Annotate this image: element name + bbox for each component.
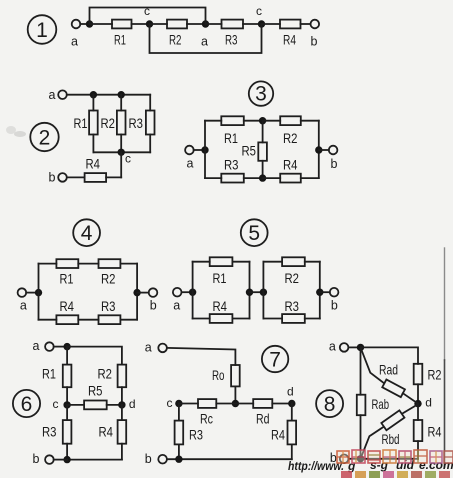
svg-text:b: b bbox=[33, 452, 40, 466]
wire bbox=[132, 23, 150, 25]
wire bbox=[80, 23, 86, 25]
svg-text:b: b bbox=[145, 452, 152, 466]
wire bbox=[167, 348, 236, 365]
wire bbox=[305, 318, 320, 320]
svg-text:a: a bbox=[201, 35, 208, 49]
wire bbox=[244, 120, 263, 122]
resistor R5 bbox=[67, 382, 122, 409]
node right (circuit 4) bbox=[133, 289, 140, 296]
svg-text:R2: R2 bbox=[285, 270, 300, 286]
svg-text:Rad: Rad bbox=[379, 362, 398, 378]
terminal b (circuit 3) bbox=[329, 146, 338, 171]
loop1 bottom rail wire bbox=[193, 318, 210, 320]
circuit 4 number badge bbox=[73, 219, 100, 246]
resistor R1 bbox=[42, 347, 71, 405]
terminal b (circuit 5) bbox=[330, 288, 339, 312]
svg-text:c: c bbox=[256, 4, 262, 18]
resistor R1 bbox=[210, 257, 233, 286]
svg-text:R2: R2 bbox=[169, 32, 182, 48]
resistor R1 bbox=[221, 116, 244, 146]
svg-text:R1: R1 bbox=[114, 32, 126, 48]
wire bottom rail bbox=[39, 319, 57, 321]
circuit 3 number badge bbox=[249, 81, 273, 105]
circuit 7 number badge bbox=[262, 346, 288, 372]
bottom rail wire (circuit 7) bbox=[167, 458, 292, 460]
node left loop1 bbox=[189, 289, 196, 296]
resistor Rad bbox=[361, 347, 419, 403]
wire bottom bridge bbox=[150, 24, 262, 53]
svg-text:R4: R4 bbox=[213, 298, 228, 314]
node after a bbox=[86, 20, 93, 27]
wire bbox=[263, 177, 281, 179]
node left (circuit 3) bbox=[201, 146, 208, 153]
node R2 top bbox=[118, 91, 125, 98]
svg-text:R2: R2 bbox=[428, 366, 442, 382]
node b (circuit 8) bbox=[357, 455, 364, 462]
node right loop2 bbox=[316, 289, 323, 296]
resistor Ro bbox=[212, 365, 240, 404]
wire bbox=[301, 177, 319, 179]
svg-text:R3: R3 bbox=[224, 157, 239, 173]
resistor R2 bbox=[167, 20, 187, 48]
node bottom middle bbox=[259, 174, 266, 181]
svg-text:R1: R1 bbox=[42, 366, 56, 382]
svg-text:7: 7 bbox=[269, 348, 281, 371]
wire bbox=[90, 23, 113, 25]
circuit 5 number badge bbox=[241, 219, 268, 246]
wire bbox=[263, 120, 281, 122]
svg-text:b: b bbox=[150, 298, 157, 312]
node c (left) bbox=[144, 4, 153, 28]
wire bottom rail bbox=[361, 458, 419, 460]
wire R1 bottom to node c bbox=[93, 151, 121, 153]
wire top rail bbox=[67, 347, 122, 365]
svg-text:a: a bbox=[173, 298, 180, 312]
bottom rail wire bbox=[67, 459, 122, 461]
svg-text:R3: R3 bbox=[129, 115, 144, 131]
wire left vertical bbox=[204, 121, 206, 178]
resistor R4 bbox=[85, 156, 107, 182]
svg-text:R1: R1 bbox=[74, 115, 88, 131]
resistor R4 bbox=[280, 157, 301, 183]
resistor Rbd bbox=[361, 404, 419, 459]
wire to R4 bbox=[106, 176, 121, 178]
svg-text:R5: R5 bbox=[88, 382, 103, 398]
wire bbox=[54, 346, 67, 348]
svg-text:R3: R3 bbox=[189, 427, 203, 443]
svg-text:a: a bbox=[33, 339, 40, 353]
svg-text:c: c bbox=[167, 396, 173, 410]
svg-text:Rc: Rc bbox=[200, 411, 213, 427]
wire bbox=[187, 23, 206, 25]
wire bbox=[78, 263, 98, 265]
loop1 top rail wire bbox=[193, 261, 210, 263]
terminal a (circuit 7) bbox=[145, 341, 167, 355]
wire bbox=[78, 319, 98, 321]
node b (circuit 7) bbox=[175, 456, 182, 463]
circuit 2 number badge bbox=[30, 123, 58, 151]
resistor R4 bbox=[56, 298, 78, 324]
svg-text:R4: R4 bbox=[271, 427, 285, 443]
wire bbox=[244, 177, 263, 179]
wire top rail bbox=[361, 347, 419, 363]
svg-text:1: 1 bbox=[36, 19, 48, 42]
scan edge line bbox=[444, 248, 446, 360]
node left (circuit 4) bbox=[35, 289, 42, 296]
resistor R1 bbox=[56, 259, 78, 286]
svg-text:a: a bbox=[71, 35, 78, 49]
node right loop1 bbox=[246, 289, 253, 296]
wire bbox=[120, 319, 137, 321]
resistor R3 bbox=[221, 157, 244, 183]
svg-text:R4: R4 bbox=[86, 156, 101, 172]
node a (circuit 6) bbox=[63, 343, 70, 350]
wire left vertical bbox=[38, 264, 40, 320]
svg-text:R3: R3 bbox=[285, 298, 300, 314]
wire bbox=[194, 149, 205, 151]
node d (circuit 7) bbox=[287, 385, 295, 408]
wire bbox=[54, 459, 67, 461]
svg-text:R3: R3 bbox=[42, 423, 57, 439]
svg-text:Rab: Rab bbox=[372, 396, 390, 412]
terminal b (circuit 6) bbox=[33, 452, 54, 466]
wire to terminal b bbox=[67, 176, 85, 178]
svg-text:R1: R1 bbox=[224, 130, 238, 146]
svg-text:a: a bbox=[49, 88, 56, 102]
resistor R3 bbox=[282, 298, 305, 323]
wire bbox=[348, 346, 360, 348]
resistor R2 bbox=[101, 95, 126, 153]
node c (circuit 2) bbox=[118, 149, 132, 166]
svg-text:Rbd: Rbd bbox=[382, 431, 400, 447]
svg-text:d: d bbox=[129, 397, 136, 411]
svg-text:b: b bbox=[311, 35, 318, 49]
terminal b (circuit 1) bbox=[311, 20, 320, 49]
circuit 1 number badge bbox=[28, 15, 57, 44]
terminal a (circuit 3) bbox=[185, 146, 194, 171]
svg-text:b: b bbox=[331, 157, 338, 171]
terminal a (circuit 1) bbox=[72, 20, 81, 29]
wire bbox=[26, 292, 38, 294]
svg-text:2: 2 bbox=[39, 127, 51, 150]
wire R3 bottom to node c bbox=[121, 151, 150, 153]
node middle (circuit 7) bbox=[232, 400, 239, 407]
resistor R4 bbox=[280, 20, 301, 48]
node top middle bbox=[259, 117, 266, 124]
wire bbox=[305, 261, 320, 263]
resistor R3 bbox=[222, 20, 244, 48]
terminal b (circuit 4) bbox=[149, 288, 158, 312]
svg-text:R2: R2 bbox=[101, 115, 116, 131]
wire bbox=[232, 261, 249, 263]
wire top rail left bbox=[205, 120, 221, 122]
resistor R1 bbox=[112, 20, 132, 48]
terminal b (circuit 7) bbox=[145, 452, 167, 466]
svg-text:R2: R2 bbox=[98, 366, 113, 382]
wire top bridge bbox=[90, 8, 206, 25]
resistor R4 bbox=[99, 405, 127, 460]
wire bbox=[150, 23, 168, 25]
loop2 left vertical wire bbox=[262, 262, 264, 319]
terminal a (circuit 5) bbox=[173, 288, 182, 312]
resistor R3 (circuit 7) bbox=[175, 404, 204, 460]
svg-text:R3: R3 bbox=[101, 298, 116, 314]
svg-text:R1: R1 bbox=[60, 271, 74, 287]
wire right vertical bbox=[318, 121, 320, 178]
svg-text:a: a bbox=[20, 298, 27, 312]
resistor R3 bbox=[42, 405, 71, 460]
node left loop2 bbox=[260, 289, 267, 296]
svg-text:R3: R3 bbox=[225, 32, 238, 48]
wire bbox=[137, 292, 149, 294]
node d (circuit 6) bbox=[118, 397, 135, 411]
loop2 bottom rail wire bbox=[263, 318, 282, 320]
loop2 right vertical wire bbox=[319, 262, 321, 319]
wire top rail bbox=[39, 263, 57, 265]
node c (right) bbox=[256, 4, 265, 28]
scan smudge left edge bbox=[6, 126, 26, 137]
svg-text:R4: R4 bbox=[428, 423, 442, 439]
terminal a (circuit 2) bbox=[49, 88, 67, 102]
resistor R5 bbox=[242, 121, 267, 178]
svg-text:R4: R4 bbox=[283, 32, 296, 48]
wire bbox=[182, 291, 193, 293]
resistor R2 bbox=[280, 116, 301, 146]
wire bbox=[120, 263, 137, 265]
wire bbox=[348, 458, 360, 460]
resistor R2 bbox=[282, 257, 305, 286]
node d (circuit 8) bbox=[414, 396, 432, 410]
resistor R4 (circuit 8) bbox=[414, 404, 442, 459]
node c (circuit 7) bbox=[167, 396, 183, 410]
svg-text:R5: R5 bbox=[242, 143, 257, 159]
svg-text:d: d bbox=[425, 396, 432, 410]
resistor Rab bbox=[357, 347, 389, 458]
node b (circuit 6) bbox=[63, 456, 70, 463]
wire bbox=[320, 291, 330, 293]
svg-text:R1: R1 bbox=[213, 270, 227, 286]
resistor R4 (circuit 7) bbox=[271, 404, 296, 460]
svg-text:R2: R2 bbox=[283, 130, 298, 146]
wire middle link bbox=[250, 291, 264, 293]
node right (circuit 3) bbox=[315, 146, 322, 153]
wire bbox=[232, 318, 249, 320]
svg-text:http://www.: http://www. bbox=[288, 459, 344, 473]
wire bbox=[301, 23, 311, 25]
svg-text:4: 4 bbox=[81, 222, 93, 245]
svg-text:c: c bbox=[53, 397, 59, 411]
svg-text:d: d bbox=[287, 385, 294, 399]
wire node c down bbox=[120, 152, 122, 177]
node a (circuit 8) bbox=[357, 344, 364, 351]
terminal a (circuit 4) bbox=[18, 288, 27, 312]
wire bbox=[319, 149, 329, 151]
terminal a (circuit 6) bbox=[33, 339, 54, 353]
node a (middle) bbox=[201, 20, 209, 48]
svg-text:R4: R4 bbox=[283, 157, 298, 173]
wire bottom rail left bbox=[205, 177, 221, 179]
wire top rail bbox=[67, 94, 150, 96]
resistor R2 bbox=[99, 259, 121, 286]
svg-text:b: b bbox=[49, 170, 56, 184]
watermark url text bbox=[288, 458, 453, 473]
resistor R4 bbox=[210, 298, 233, 323]
wire bbox=[301, 120, 319, 122]
svg-text:R4: R4 bbox=[60, 298, 75, 314]
svg-text:a: a bbox=[145, 341, 152, 355]
terminal b (circuit 8) bbox=[330, 451, 349, 465]
terminal a (circuit 8) bbox=[329, 339, 349, 353]
resistor R3 bbox=[99, 298, 121, 324]
circuit 8 number badge bbox=[316, 390, 343, 417]
node c (circuit 6) bbox=[53, 397, 71, 411]
svg-text:R4: R4 bbox=[99, 423, 114, 439]
svg-text:3: 3 bbox=[255, 83, 267, 106]
watermark colored glyphs row 2 bbox=[341, 471, 450, 478]
wire bbox=[206, 23, 222, 25]
resistor R3 bbox=[129, 95, 155, 153]
svg-text:R2: R2 bbox=[101, 271, 116, 287]
wire bbox=[262, 23, 281, 25]
watermark colored glyphs row 1 bbox=[337, 450, 453, 463]
terminal b (circuit 2) bbox=[49, 170, 67, 184]
resistor R1 bbox=[74, 95, 98, 153]
resistor Rc bbox=[179, 399, 236, 426]
svg-text:a: a bbox=[187, 157, 194, 171]
resistor Rd bbox=[235, 399, 291, 426]
circuit 6 number badge bbox=[13, 390, 40, 417]
svg-text:5: 5 bbox=[248, 222, 260, 245]
loop2 top rail wire bbox=[263, 261, 282, 263]
wire right vertical bbox=[136, 264, 138, 320]
svg-text:c: c bbox=[144, 4, 150, 18]
wire bbox=[243, 23, 262, 25]
loop1 left vertical wire bbox=[192, 262, 194, 319]
svg-text:6: 6 bbox=[21, 393, 33, 416]
node R1 top bbox=[90, 91, 97, 98]
svg-text:b: b bbox=[331, 298, 338, 312]
svg-text:Rd: Rd bbox=[256, 411, 270, 427]
svg-text:8: 8 bbox=[324, 393, 336, 416]
svg-text:c: c bbox=[125, 152, 131, 166]
resistor R2 (circuit 8) bbox=[414, 364, 442, 404]
loop1 right vertical wire bbox=[249, 262, 251, 319]
svg-text:Ro: Ro bbox=[212, 367, 225, 383]
resistor R2 bbox=[98, 365, 127, 405]
svg-text:a: a bbox=[329, 339, 336, 353]
